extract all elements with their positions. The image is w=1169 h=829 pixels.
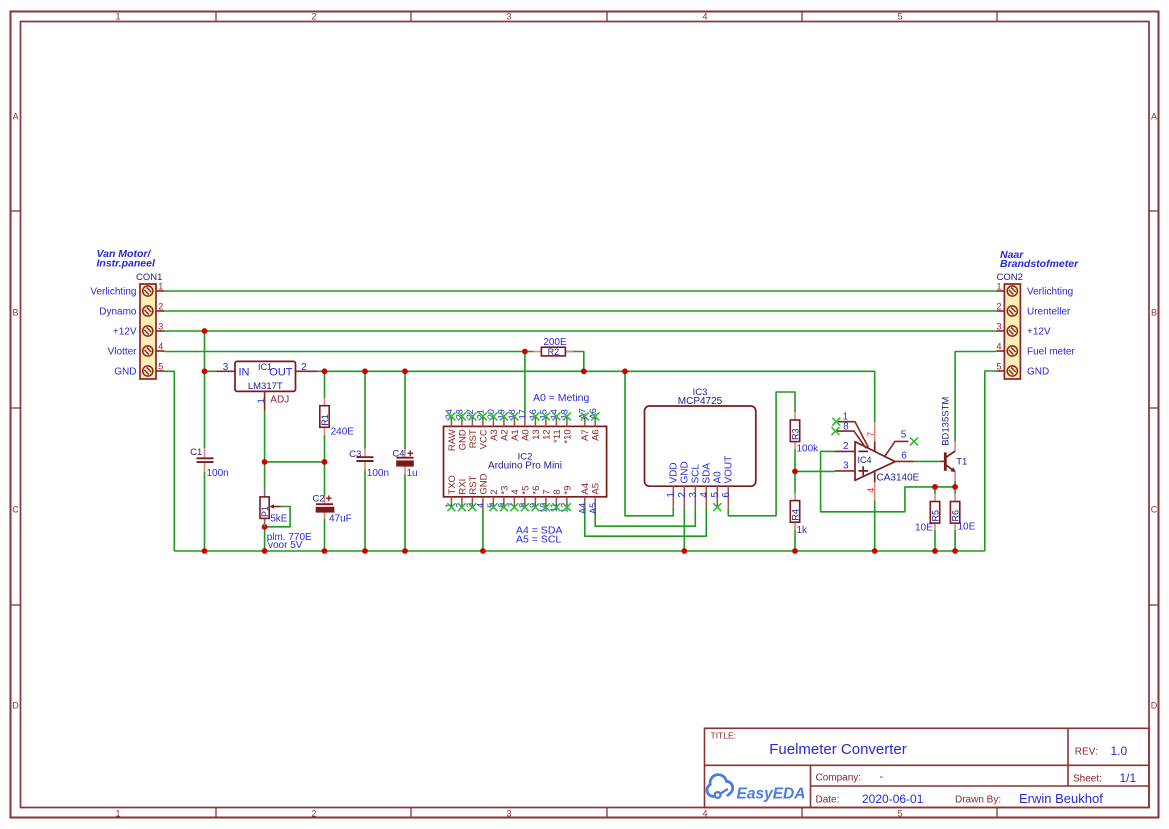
svg-text:2: 2 <box>843 441 849 452</box>
svg-text:GND: GND <box>478 473 489 494</box>
svg-text:R5: R5 <box>930 510 940 522</box>
svg-text:4: 4 <box>866 488 877 493</box>
wire C3 column <box>364 371 366 448</box>
svg-text:100k: 100k <box>797 443 820 454</box>
wire R1 column <box>324 371 326 398</box>
svg-text:ADJ: ADJ <box>270 395 289 406</box>
svg-text:Dynamo: Dynamo <box>99 307 137 318</box>
svg-text:Erwin Beukhof: Erwin Beukhof <box>1019 791 1103 806</box>
wire SCL (IC2.A5 to IC3.3) <box>595 507 695 526</box>
wire T1 collector to Fuel meter row <box>955 352 996 442</box>
svg-text:3: 3 <box>506 12 511 22</box>
wire R6 column <box>954 487 956 494</box>
svg-text:A: A <box>12 112 18 122</box>
svg-text:1: 1 <box>115 808 120 818</box>
EasyEDA logo <box>707 775 733 798</box>
capacitor C3 100n <box>364 449 366 457</box>
svg-text:SCL: SCL <box>691 464 702 484</box>
wire GND riser to CON2.5 <box>985 371 997 551</box>
svg-text:C: C <box>12 505 19 515</box>
IC4 pin 5 no-connect <box>885 441 908 456</box>
wire IC4.4 down to GND <box>874 500 876 551</box>
svg-text:-: - <box>880 771 884 783</box>
svg-text:*9: *9 <box>562 486 573 495</box>
svg-text:2: 2 <box>996 302 1001 312</box>
wire ADJ node row <box>265 461 325 463</box>
svg-text:4: 4 <box>702 808 707 818</box>
svg-text:Date:: Date: <box>816 794 840 805</box>
svg-text:8: 8 <box>843 421 849 432</box>
op-amp IC4 CA3140E <box>855 442 895 481</box>
wire net +12V (CON1.3 to CON2.3) <box>164 330 996 332</box>
svg-text:13: 13 <box>531 429 542 440</box>
wire +12V tap down / C1 column <box>204 331 206 448</box>
svg-text:Vlotter: Vlotter <box>108 347 138 358</box>
svg-text:7: 7 <box>866 432 877 437</box>
svg-text:GND: GND <box>680 461 691 483</box>
resistor R1 240E <box>324 398 326 406</box>
svg-text:1u: 1u <box>407 468 418 479</box>
dac IC3 MCP4725 <box>645 406 756 486</box>
IC3 pins <box>672 486 674 507</box>
svg-text:3: 3 <box>996 322 1001 332</box>
svg-text:17: 17 <box>518 409 528 419</box>
junction dots <box>202 328 208 334</box>
svg-text:47uF: 47uF <box>329 513 352 524</box>
svg-text:2: 2 <box>311 808 316 818</box>
wire R3/R4 node to IC4.3 <box>795 449 835 471</box>
IC4 pin 7 V+ <box>874 422 876 441</box>
svg-text:*5: *5 <box>520 486 531 495</box>
resistor R4 1k <box>794 493 796 501</box>
svg-text:A4: A4 <box>577 503 587 514</box>
svg-text:A0 = Meting: A0 = Meting <box>533 392 589 404</box>
svg-text:IC1: IC1 <box>258 362 272 372</box>
svg-text:Instr.paneel: Instr.paneel <box>97 257 156 269</box>
svg-text:C1: C1 <box>190 447 202 458</box>
IC4 pin 6 output <box>895 460 914 462</box>
wire to IC1 IN <box>205 370 217 372</box>
svg-text:2: 2 <box>158 302 163 312</box>
wire IC3 GND down <box>683 507 685 551</box>
svg-text:3: 3 <box>688 492 699 498</box>
svg-text:D: D <box>1151 701 1158 711</box>
svg-text:10E: 10E <box>915 523 933 534</box>
title block <box>705 728 1150 807</box>
svg-text:MCP4725: MCP4725 <box>678 396 723 407</box>
regulator IC1 LM317T <box>235 361 296 391</box>
svg-text:CA3140E: CA3140E <box>877 473 920 484</box>
svg-text:4: 4 <box>702 12 707 22</box>
IC2 top pins <box>450 416 452 426</box>
svg-text:Fuelmeter Converter: Fuelmeter Converter <box>769 741 907 758</box>
svg-text:240E: 240E <box>331 427 355 438</box>
connector CON2 <box>1004 284 1020 379</box>
svg-text:6: 6 <box>721 492 732 498</box>
svg-text:Drawn By:: Drawn By: <box>955 794 1001 805</box>
wire C4 column <box>404 371 406 449</box>
wire VDD (IC3.1 to 5V rail) <box>625 371 673 516</box>
svg-text:4: 4 <box>510 489 521 494</box>
svg-text:Verlichting: Verlichting <box>1027 287 1073 298</box>
wire CON1.5 GND down to rail <box>164 371 174 551</box>
svg-text:5: 5 <box>710 492 721 498</box>
svg-text:Fuel meter: Fuel meter <box>1027 347 1075 358</box>
svg-text:1k: 1k <box>797 525 809 536</box>
wire GND rail <box>174 550 985 552</box>
svg-text:Verlichting: Verlichting <box>90 287 136 298</box>
capacitor C1 100n <box>204 448 206 457</box>
wire 5V rail from IC1 OUT <box>317 371 874 422</box>
svg-text:TXO: TXO <box>447 475 458 495</box>
svg-text:C2: C2 <box>313 494 325 505</box>
svg-text:12: 12 <box>541 429 552 440</box>
module IC2 Arduino Pro Mini <box>444 426 607 496</box>
svg-text:A3: A3 <box>489 429 500 441</box>
resistor R5 10E <box>934 494 936 502</box>
svg-text:RST: RST <box>468 475 479 494</box>
svg-text:D: D <box>12 701 19 711</box>
svg-text:1/1: 1/1 <box>1120 771 1137 785</box>
svg-text:2: 2 <box>677 492 688 498</box>
svg-text:100n: 100n <box>207 468 229 479</box>
svg-text:P1: P1 <box>260 506 270 517</box>
svg-text:4: 4 <box>996 342 1001 352</box>
svg-text:C: C <box>1151 505 1158 515</box>
svg-text:OUT: OUT <box>269 366 293 378</box>
svg-text:4: 4 <box>158 342 163 352</box>
wire T1 emitter down <box>954 481 956 487</box>
svg-text:8: 8 <box>552 489 563 494</box>
wire VOUT (IC3.6 to R3) <box>728 392 795 516</box>
svg-text:R3: R3 <box>790 428 800 440</box>
svg-text:GND: GND <box>114 367 136 378</box>
svg-text:A2: A2 <box>499 429 510 441</box>
svg-text:1: 1 <box>256 398 267 403</box>
svg-text:RAW: RAW <box>447 429 458 451</box>
svg-text:IC4: IC4 <box>858 455 872 465</box>
svg-text:5kE: 5kE <box>270 514 288 525</box>
svg-text:TITLE:: TITLE: <box>711 731 737 741</box>
transistor T1 BD135STM <box>944 452 947 470</box>
svg-text:R4: R4 <box>790 509 800 521</box>
wire R4 bottom <box>794 530 796 551</box>
svg-text:voor 5V: voor 5V <box>268 540 303 551</box>
connector CON1 <box>140 284 156 379</box>
svg-text:4: 4 <box>476 503 486 508</box>
svg-text:LM317T: LM317T <box>248 381 283 392</box>
wire C2 column <box>324 462 326 496</box>
wire net Verlichting (CON1.1 to CON2.1) <box>164 290 996 292</box>
svg-text:5: 5 <box>897 808 902 818</box>
svg-text:RXI: RXI <box>457 479 468 495</box>
svg-text:+12V: +12V <box>1027 327 1051 338</box>
svg-text:A0: A0 <box>713 471 724 484</box>
svg-text:1: 1 <box>158 282 163 292</box>
svg-text:200E: 200E <box>543 337 567 348</box>
svg-text:100n: 100n <box>367 468 389 479</box>
svg-text:A0: A0 <box>520 429 531 441</box>
svg-text:+12V: +12V <box>113 327 137 338</box>
svg-text:5: 5 <box>996 362 1001 372</box>
wire feedback IC4.2 loop <box>821 451 956 511</box>
wire P1 wiper loop <box>265 507 291 527</box>
IC4 pin 3 non-inverting input <box>835 470 855 472</box>
svg-text:A6: A6 <box>591 429 602 441</box>
svg-text:C4: C4 <box>392 449 404 460</box>
svg-text:1: 1 <box>996 282 1001 292</box>
svg-text:A7: A7 <box>580 429 591 441</box>
svg-text:2: 2 <box>301 362 307 373</box>
svg-text:Company:: Company: <box>816 772 862 783</box>
svg-text:VCC: VCC <box>478 429 489 449</box>
resistor R3 100k <box>794 412 796 420</box>
wire R2 row to 5V rail <box>525 351 534 353</box>
svg-text:3: 3 <box>506 808 511 818</box>
svg-text:*3: *3 <box>499 486 510 495</box>
svg-text:Urenteller: Urenteller <box>1027 307 1071 318</box>
svg-text:R2: R2 <box>548 347 560 357</box>
wire SDA (IC2.A4 to IC3.4) <box>585 507 707 536</box>
capacitor C4 1u polarized <box>404 449 406 457</box>
svg-text:R1: R1 <box>320 414 330 426</box>
svg-text:A1: A1 <box>510 429 521 441</box>
svg-text:3: 3 <box>158 322 163 332</box>
svg-text:7: 7 <box>541 489 552 494</box>
wire net Vlotter (CON1.4 to R2/A0) <box>164 352 525 417</box>
IC3 pin5 A0 no-connect <box>713 503 721 511</box>
svg-text:CON1: CON1 <box>136 272 162 283</box>
svg-text:A: A <box>1151 112 1157 122</box>
svg-text:A5: A5 <box>588 503 598 514</box>
svg-text:3: 3 <box>223 362 229 373</box>
IC2 bottom pins <box>450 497 452 507</box>
svg-text:Sheet:: Sheet: <box>1073 773 1102 784</box>
svg-text:B: B <box>1151 308 1157 318</box>
svg-text:C3: C3 <box>349 449 361 460</box>
svg-text:10E: 10E <box>958 522 976 533</box>
resistor R2 200E <box>534 351 542 353</box>
IC4 pin 4 V- <box>874 472 876 483</box>
wire IC4.6 to T1 base <box>914 460 940 462</box>
svg-text:*6: *6 <box>531 486 542 495</box>
svg-text:1: 1 <box>666 492 677 498</box>
svg-text:B: B <box>12 308 18 318</box>
svg-text:VOUT: VOUT <box>724 456 735 484</box>
potentiometer P1 5kE <box>264 487 266 497</box>
svg-text:IN: IN <box>239 366 250 378</box>
svg-text:1.0: 1.0 <box>1111 744 1128 758</box>
svg-text:5: 5 <box>901 430 907 441</box>
svg-text:1: 1 <box>115 12 120 22</box>
svg-text:REV:: REV: <box>1075 746 1098 757</box>
svg-text:RST: RST <box>468 429 479 448</box>
wire net Dynamo/Urenteller (CON1.2 to CON2.2) <box>164 310 996 312</box>
wire R5 column <box>934 487 936 494</box>
IC4 pin 2 inverting input <box>835 450 855 452</box>
svg-text:BD135STM: BD135STM <box>941 397 952 446</box>
svg-text:SDA: SDA <box>702 463 713 484</box>
svg-text:*11: *11 <box>552 429 563 443</box>
svg-text:GND: GND <box>1027 367 1049 378</box>
svg-text:T1: T1 <box>956 456 967 467</box>
svg-text:5: 5 <box>897 12 902 22</box>
svg-text:2: 2 <box>489 489 500 494</box>
wire ADJ column to P1 <box>264 411 266 487</box>
svg-text:*10: *10 <box>562 429 573 443</box>
svg-text:A5 = SCL: A5 = SCL <box>516 534 561 546</box>
svg-text:5: 5 <box>158 362 163 372</box>
svg-text:A4: A4 <box>580 483 591 495</box>
svg-text:VDD: VDD <box>669 462 680 483</box>
svg-text:2020-06-01: 2020-06-01 <box>862 792 924 806</box>
svg-text:CON2: CON2 <box>997 272 1023 283</box>
svg-text:2: 2 <box>311 12 316 22</box>
IC4 pin 1 no-connect <box>838 422 868 448</box>
svg-text:4: 4 <box>699 492 710 498</box>
svg-text:A5: A5 <box>591 483 602 495</box>
svg-text:Brandstofmeter: Brandstofmeter <box>1000 258 1079 270</box>
wire IC2 GND down <box>482 507 484 551</box>
capacitor C2 47uF polarized <box>324 496 326 503</box>
svg-text:GND: GND <box>457 429 468 450</box>
IC4 pin 8 no-connect <box>837 431 866 448</box>
svg-text:Arduino Pro Mini: Arduino Pro Mini <box>488 461 562 472</box>
svg-text:EasyEDA: EasyEDA <box>737 786 806 803</box>
svg-text:R6: R6 <box>951 510 961 522</box>
resistor R6 10E <box>954 494 956 502</box>
svg-text:3: 3 <box>843 460 849 471</box>
svg-text:6: 6 <box>901 451 907 462</box>
